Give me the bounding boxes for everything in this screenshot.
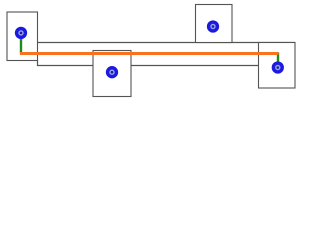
orange highlighted net bbox=[20, 52, 279, 55]
component box U1 (left) bbox=[7, 12, 38, 61]
component box U4 (right) bbox=[259, 43, 296, 89]
node A pin icon (box1) bbox=[15, 27, 27, 39]
wire net bottom (box1 corner jog to box4 left edge) bbox=[38, 60, 259, 66]
component box U3 (top middle) bbox=[196, 5, 233, 43]
node D pin icon (box4) bbox=[272, 61, 284, 73]
green stub at node A (box1) bbox=[20, 39, 22, 54]
node C pin icon (box3) bbox=[207, 20, 219, 32]
green stub at node D (under orange, box4) bbox=[277, 53, 279, 63]
wire net top (box1 to box4 corner) bbox=[38, 42, 296, 44]
component box U2 (bottom middle) bbox=[93, 51, 131, 97]
node B pin icon (box2) bbox=[106, 66, 118, 78]
